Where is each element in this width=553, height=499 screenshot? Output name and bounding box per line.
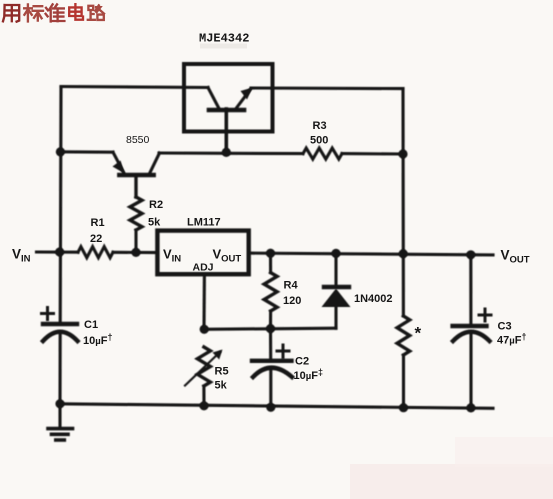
diode D1 1N4002 cathode bar — [324, 285, 349, 289]
svg-text:ADJ: ADJ — [193, 262, 214, 274]
svg-text:120: 120 — [283, 295, 301, 307]
resistor R2 (5k) zigzag — [130, 197, 142, 230]
capacitor C2 curved plate — [253, 368, 292, 377]
capacitor C2 top plate — [252, 359, 292, 363]
char 准 — [46, 4, 65, 21]
svg-text:R5: R5 — [215, 366, 229, 378]
node dot ground — [55, 399, 64, 408]
svg-text:LM117: LM117 — [187, 217, 221, 229]
svg-text:*: * — [415, 324, 422, 343]
svg-text:5k: 5k — [148, 217, 161, 229]
title 用标准电路 (red hand-drawn strokes) — [3, 4, 104, 21]
wire: ground stem — [58, 404, 61, 427]
node dot C3 top — [466, 250, 475, 259]
svg-text:8550: 8550 — [126, 134, 150, 146]
wire: R2 bottom lead to Vin row node — [134, 230, 137, 252]
plus sign of C2 — [277, 345, 289, 357]
wire: R4 bottom lead to ADJ row — [269, 311, 272, 329]
resistor R1 (22) zigzag — [78, 247, 113, 258]
char 用 — [3, 5, 19, 22]
wire: C3 bottom lead — [469, 333, 472, 408]
wire: row2 left segment to Q2 emitter — [60, 150, 113, 153]
filled parts — [55, 88, 475, 413]
ground bar 2 — [52, 432, 69, 436]
node dot Q1 base — [222, 148, 231, 157]
node dot row2-right — [398, 149, 407, 158]
capacitor C1 curved plate — [43, 332, 78, 341]
resistor R5 (5k) variable zigzag — [197, 347, 210, 386]
wire: left rail lower (below C1) — [58, 332, 61, 404]
wire: R1 to LM117 Vin pin — [113, 251, 158, 254]
wire: row2 segment R3 to right rail — [342, 152, 403, 155]
wire: LM117 Vout pin to Vout terminal — [249, 253, 493, 255]
transistor Q1 MJE4342 box — [184, 64, 273, 132]
node dot R5 top — [200, 325, 209, 334]
svg-text:R3: R3 — [313, 120, 327, 132]
node dot R5 bottom — [199, 401, 208, 410]
transistor Q2 collector diagonal — [150, 153, 160, 174]
wire: bottom rail — [60, 404, 493, 409]
svg-text:C3: C3 — [498, 321, 512, 333]
wire: row2 segment Q2 collector to R3 — [159, 151, 303, 155]
svg-text:R2: R2 — [149, 199, 163, 211]
resistor R3 (500) zigzag — [303, 148, 342, 159]
R5 wiper arrow line — [185, 352, 220, 386]
ground bar 1 — [48, 427, 73, 431]
wire: C2 top lead — [269, 329, 272, 361]
resistor * zigzag — [397, 316, 410, 355]
svg-text:MJE4342: MJE4342 — [199, 32, 249, 46]
node dot R4 bottom — [266, 324, 275, 333]
wire: Q2 base lead down to R2 — [134, 176, 137, 197]
ground bar 3 — [56, 438, 65, 442]
Q1 emitter arrowhead — [241, 88, 253, 100]
svg-text:1N4002: 1N4002 — [354, 293, 393, 305]
svg-text:500: 500 — [310, 135, 328, 147]
wire: Vin input stub — [37, 250, 79, 253]
transistor Q1 emitter diagonal — [236, 89, 251, 109]
wire: ADJ row horizontal — [204, 328, 336, 329]
wire: R5 bottom lead — [202, 386, 205, 406]
char 标 — [24, 4, 43, 21]
wire: Q1 base lead down to node — [225, 109, 229, 152]
wire: diode D1 bottom lead — [334, 307, 337, 328]
IC U1 LM117 box — [157, 231, 248, 275]
transistor Q1 base bar — [209, 108, 244, 113]
Q2 emitter arrowhead — [113, 161, 125, 174]
svg-text:22: 22 — [90, 233, 102, 245]
wire: top wire from left rail to Q1 box — [61, 87, 208, 88]
capacitor C3 curved plate — [453, 332, 490, 341]
svg-text:R4: R4 — [284, 280, 299, 292]
node dot right-rail Vout row — [399, 249, 408, 258]
plus sign of C1 — [42, 308, 54, 320]
wire: C2 bottom lead — [269, 369, 272, 408]
node dot C3 bottom — [466, 403, 475, 412]
R5 arrowhead — [213, 350, 223, 360]
diode D1 triangle — [322, 289, 351, 308]
resistor R4 (120) zigzag — [264, 273, 277, 311]
wire: R4 top lead — [269, 253, 272, 272]
transistor Q2 base bar — [119, 173, 153, 178]
wire: diode D1 top lead — [334, 253, 337, 287]
capacitor C1 top plate — [43, 322, 77, 326]
schematic ink — [37, 64, 494, 440]
wire: right rail upper — [401, 89, 404, 316]
node dot D1 top — [331, 249, 340, 258]
char 路 — [88, 5, 104, 20]
node dot row2-left — [56, 147, 65, 156]
plus sign of C3 — [479, 309, 491, 321]
node dot Vin-rail — [55, 247, 64, 256]
node dot right-rail bottom — [399, 403, 408, 412]
node dot R2 bottom — [131, 248, 140, 257]
node dot C2 bottom — [266, 403, 275, 412]
node dot R4 top — [266, 249, 275, 258]
svg-text:C1: C1 — [84, 319, 98, 331]
transistor Q2 8550 emitter diagonal — [113, 152, 124, 173]
char 电 — [69, 4, 83, 20]
wire: right rail lower below * resistor — [402, 355, 405, 408]
wire: left rail upper (Vin rail) — [59, 87, 63, 324]
capacitor C3 top plate — [453, 324, 487, 328]
wire: ADJ pin down to R5 node — [202, 275, 205, 330]
wire: C3 top lead — [469, 255, 472, 325]
svg-text:5k: 5k — [215, 380, 228, 392]
svg-text:C2: C2 — [295, 356, 309, 368]
svg-text:R1: R1 — [91, 217, 105, 229]
wire: top wire from Q1 emitter to right rail — [251, 86, 403, 90]
transistor Q1 collector diagonal — [208, 88, 219, 109]
